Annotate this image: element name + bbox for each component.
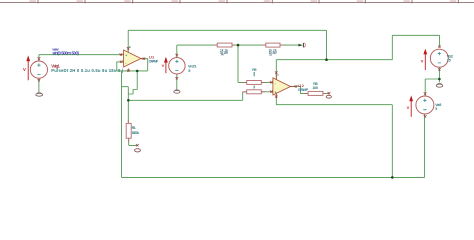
svg-text:100: 100: [312, 86, 318, 90]
svg-text:V: V: [162, 64, 165, 68]
resistor R3: [266, 43, 280, 55]
svg-text:1000k: 1000k: [132, 131, 140, 135]
wire Vsig1 bottom to ground: [38, 78, 40, 92]
resistor R2 lead stubs: [213, 44, 235, 46]
svg-text:1k 1W: 1k 1W: [220, 51, 228, 55]
pin marker Vcc2 minus pin: [438, 68, 441, 70]
svg-text:V: V: [421, 58, 424, 63]
ground under Vcc2: [436, 84, 442, 87]
wire R3 to port: [280, 44, 298, 46]
voltage source Vcc5: [407, 95, 442, 116]
wire R5 row: [238, 81, 271, 83]
op-amp U1: [124, 45, 159, 67]
pin marker U2 V- power pin: [275, 96, 278, 98]
voltage source Vcc2: [421, 49, 453, 70]
wire Vcc2 bottom to Vcc5 top: [425, 79, 439, 96]
wire R6 to U2 inverting input: [261, 91, 271, 93]
resistor R5 lead stubs: [243, 81, 265, 83]
svg-text:-: -: [275, 81, 276, 85]
wire R8 right to ground: [323, 92, 329, 94]
junction at Vcc2 minus node: [438, 78, 441, 81]
pin marker U1 pin 1 non-inverting input: [120, 53, 123, 55]
pin marker Vsig1 minus pin: [38, 79, 41, 81]
wire node row y=100 to R6: [128, 92, 246, 101]
svg-text:R5: R5: [252, 68, 256, 72]
wire ground stub below Vcc2: [438, 79, 440, 82]
ground right of R8: [326, 95, 331, 98]
svg-text:5: 5: [435, 107, 437, 111]
svg-text:PulseDt 2H 0 0.1u 0.5u 9u 18u: PulseDt 2H 0 0.1u 0.5u 9u 18u 0 ): [51, 68, 124, 73]
op-amp U2: [273, 73, 309, 95]
op-amp U2 pin stubs: [271, 73, 296, 97]
wire Vcc2 bottom: [438, 67, 440, 79]
output port symbol: [298, 43, 305, 48]
resistor R2: [217, 43, 232, 55]
op-amp U1 pin stubs: [121, 48, 144, 71]
pin marker Vref1 minus pin: [175, 77, 178, 79]
svg-text:1k 1W: 1k 1W: [269, 51, 277, 55]
pin marker U2 inverting input: [270, 81, 273, 83]
wire staircase from output junction: [128, 71, 137, 94]
wire U1 feedback: [117, 70, 148, 72]
resistor R3 lead stubs: [262, 44, 284, 46]
pin marker ground at R8: [328, 92, 331, 94]
resistor R1: [126, 123, 140, 138]
wire to Vcc2 top: [392, 35, 439, 59]
junction on V+ rail: [325, 58, 328, 61]
wire U2 bottom power pin to rail: [276, 94, 392, 178]
svg-text:V: V: [407, 105, 410, 110]
voltage source Vsig1: [23, 48, 124, 81]
pin marker Vref1 plus pin: [175, 54, 178, 56]
pin marker ground at R1: [136, 144, 139, 146]
wire Vref1 bottom to ground: [176, 74, 178, 90]
pin marker Vsig1 plus pin: [38, 57, 41, 59]
wire rail right end up to Vcc5 bottom: [424, 114, 426, 177]
wire R1 bottom to ground: [129, 138, 138, 145]
ground under Vref1: [174, 90, 180, 93]
svg-text:25: 25: [447, 59, 451, 63]
svg-text:OPAMP: OPAMP: [149, 59, 159, 63]
wire junction x=238 vertical: [237, 45, 239, 82]
wire Vref1 top stub: [176, 45, 178, 58]
svg-text:R1: R1: [132, 126, 136, 130]
wire top power rail: [128, 30, 326, 59]
wire Vref1 to R2: [177, 44, 217, 46]
pin marker U1 V- power pin: [127, 70, 130, 72]
wire bottom rail: [122, 176, 425, 178]
pin marker U1 V+ power pin: [127, 47, 130, 49]
resistor R6: [247, 90, 262, 94]
wire Vsig1 top stub: [38, 55, 40, 62]
svg-text:sin(0 500m 500): sin(0 500m 500): [52, 50, 79, 55]
voltage source Vref1: [162, 57, 198, 74]
resistor R6 lead stubs: [243, 91, 265, 93]
ground under Vsig1: [36, 93, 43, 96]
junction between R2 and R3: [237, 44, 240, 47]
wire U1 pin2 hook: [117, 62, 122, 71]
pin marker Vcc5 plus pin: [424, 92, 427, 94]
pin marker Vcc5 minus pin: [424, 115, 427, 117]
wire U1 output drop: [141, 59, 148, 71]
svg-text:-: -: [125, 61, 126, 65]
junction at R1 top node: [127, 99, 130, 102]
pin marker U2 V+ power pin: [275, 71, 278, 73]
wire V+ row y=59.7: [276, 59, 392, 61]
wire U2 output elbow to R8: [291, 87, 309, 94]
wire B left vertical to bottom rail: [121, 71, 123, 177]
svg-text:V: V: [23, 67, 26, 72]
pin marker Vcc2 plus pin: [438, 46, 441, 48]
svg-text:+: +: [275, 90, 277, 94]
svg-text:OPAMP: OPAMP: [298, 88, 309, 92]
junction on bottom rail: [391, 176, 394, 179]
pin marker U1 output pin: [143, 58, 145, 60]
resistor R8: [308, 82, 323, 95]
wire U1 top power pin riser: [127, 30, 129, 52]
wire U2 top power pin: [275, 60, 277, 80]
wire branch jog to R1 column: [122, 87, 129, 124]
wire signal Vsig1 to U1 pin1: [39, 54, 121, 56]
resistor R1 lead stubs: [127, 120, 129, 142]
junction at U1 feedback node: [136, 70, 139, 73]
sheet border ruler: [0, 0, 474, 3]
resistor R5: [247, 68, 262, 89]
svg-text:+: +: [125, 53, 127, 57]
wire R2 to R3: [232, 44, 266, 46]
ground right of R1: [135, 149, 141, 152]
resistor R8 lead stubs: [304, 92, 326, 94]
pin marker U2 non-inverting input: [270, 90, 273, 92]
pin marker U1 pin 2 inverting input: [120, 61, 123, 63]
pin marker U2 output pin: [295, 85, 298, 87]
